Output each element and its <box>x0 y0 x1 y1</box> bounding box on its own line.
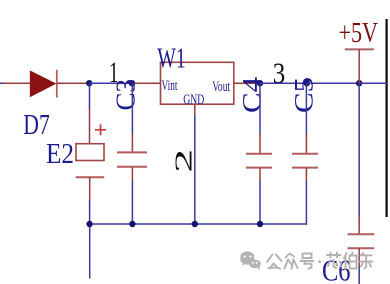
C4 bottom pin wire to ground bus <box>259 168 261 224</box>
svg-text:W1: W1 <box>157 43 186 74</box>
pin name Vint <box>162 78 179 94</box>
ground bus left drop wire <box>89 224 91 279</box>
svg-text:D7: D7 <box>23 110 50 141</box>
W1 pin 1 wire <box>132 82 161 84</box>
node B junction (C3 top) <box>129 80 135 86</box>
芯 <box>327 253 341 258</box>
C5 bottom pin wire to ground bus <box>305 168 307 225</box>
label C4 (rotated) <box>238 77 267 113</box>
bus junction at C3 <box>129 221 135 227</box>
svg-text:GND: GND <box>183 92 204 108</box>
diode D7 cathode pin wire <box>57 82 89 84</box>
C3 bottom pin wire to ground bus <box>131 167 133 224</box>
watermark wechat icon <box>240 251 260 270</box>
pin number 3 (W1 Vout pin) <box>273 57 286 90</box>
ground bus wire <box>90 223 308 225</box>
label D7 <box>23 110 50 141</box>
公 <box>267 255 282 263</box>
wire node A down to E2 <box>89 83 91 144</box>
svg-text:3: 3 <box>273 57 286 90</box>
capacitor C3 <box>117 152 147 166</box>
wire node B down to C3 <box>131 83 133 152</box>
svg-text:2: 2 <box>171 149 198 173</box>
label W1 <box>157 43 186 74</box>
bus junction at C4 <box>257 221 263 227</box>
label C5 (rotated) <box>290 77 319 113</box>
diode D7 <box>30 70 57 98</box>
capacitor C4 <box>246 154 272 168</box>
capacitor C5 <box>292 154 318 168</box>
svg-text:C3: C3 <box>111 79 141 111</box>
C6 bottom pin wire to bottom edge <box>358 248 360 284</box>
node D junction (C5 top) <box>304 80 310 86</box>
wire node E down to C6 <box>358 83 360 234</box>
sheet border line (right edge of schematic sheet) <box>386 19 388 217</box>
pin number 2 (W1 GND pin, rotated) <box>171 149 198 173</box>
label E2 <box>46 139 74 170</box>
wire node A to C3 node <box>89 82 132 84</box>
wire C4 node to C5 node <box>260 82 307 84</box>
pin name Vout <box>212 79 231 95</box>
wire: left edge stub (blue) <box>0 82 4 84</box>
伯 <box>344 253 347 269</box>
wire C5 node to +5V node <box>307 82 359 84</box>
W1 pin 2 (GND) wire down to ground bus <box>194 104 196 224</box>
svg-text:C4: C4 <box>238 77 267 113</box>
capacitor C6 <box>348 234 375 248</box>
众 <box>286 254 295 258</box>
watermark text: 公众号·芯伯乐 (drawn strokes) <box>267 253 373 270</box>
label C6 <box>322 253 351 284</box>
power port +5V bar symbol <box>345 49 374 83</box>
svg-text:Vout: Vout <box>212 79 231 95</box>
E2 bottom pin wire to ground bus <box>89 177 91 224</box>
svg-text:E2: E2 <box>46 139 74 170</box>
svg-text:+5V: +5V <box>339 17 379 49</box>
diode D7 anode pin wire <box>3 82 30 84</box>
node E junction (+5V / C6) <box>356 80 362 86</box>
svg-text:C5: C5 <box>290 77 319 113</box>
号 <box>303 254 312 259</box>
svg-text:Vint: Vint <box>162 78 179 94</box>
pin number 1 (W1 Vint pin) <box>109 56 119 89</box>
wire +5V node to right edge <box>359 82 388 84</box>
power port +5V label <box>339 17 379 49</box>
乐 <box>360 253 373 269</box>
label C3 (rotated) <box>111 79 141 111</box>
capacitor E2 (electrolytic, polarized) <box>76 124 106 177</box>
node A junction (diode / E2 / W1 input) <box>86 80 92 86</box>
op-amp / regulator U1 body (W1 box) <box>161 62 234 104</box>
bus junction at GND pin <box>192 221 198 227</box>
wire node D down to C5 <box>305 83 307 154</box>
W1 pin 3 (Vout) wire <box>234 82 260 84</box>
node C junction (C4 top) <box>257 80 263 86</box>
· <box>318 260 321 263</box>
wire node C down to C4 <box>259 83 261 154</box>
pin name GND <box>183 92 204 108</box>
bus junction at E2 <box>86 221 92 227</box>
